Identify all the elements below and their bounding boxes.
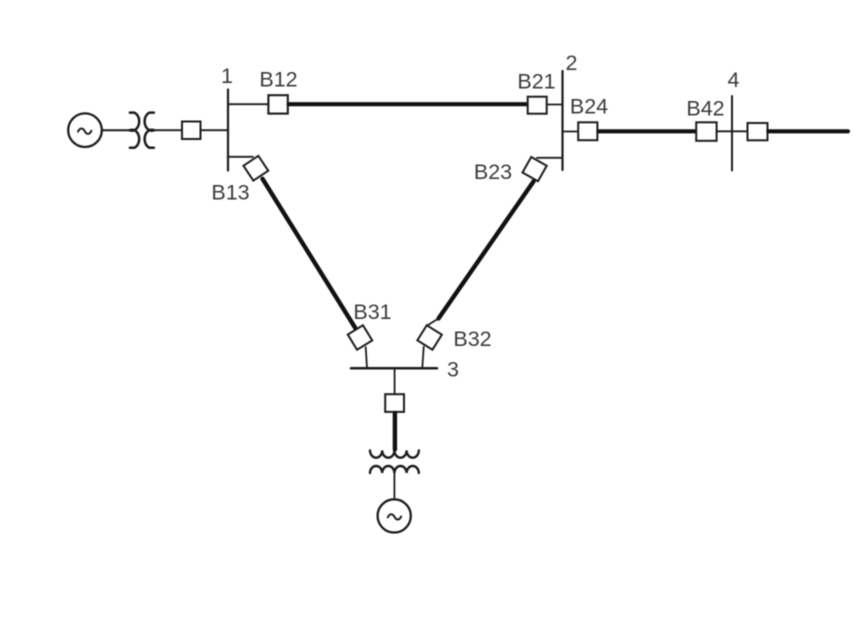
line 4 outgoing wire (thick) bbox=[768, 129, 848, 133]
generator G2 bbox=[378, 499, 411, 532]
wire breaker to T2 (thick) bbox=[393, 413, 397, 450]
svg-text:1: 1 bbox=[221, 64, 233, 88]
line 2-4 wire (thick) bbox=[599, 129, 696, 133]
breaker (bus 3 / transformer 2) bbox=[385, 394, 404, 412]
transformer T2 bbox=[370, 450, 419, 473]
wire bus 2 to B23 bbox=[537, 157, 563, 159]
svg-text:B12: B12 bbox=[259, 68, 297, 92]
svg-text:B42: B42 bbox=[686, 97, 724, 121]
line 2-3 wire (thick) bbox=[439, 182, 534, 319]
bus 4 bbox=[731, 96, 733, 171]
breaker B12 bbox=[268, 95, 287, 113]
breaker B42 bbox=[696, 122, 716, 141]
svg-text:4: 4 bbox=[728, 68, 740, 92]
wire bus 3 to breaker bbox=[394, 368, 396, 394]
breaker B32 bbox=[417, 325, 442, 350]
svg-text:B32: B32 bbox=[453, 327, 491, 351]
wire breaker to bus 1 bbox=[201, 129, 229, 131]
breaker B13 bbox=[243, 156, 268, 181]
breaker (generator 1 / bus 1) bbox=[182, 122, 201, 140]
wire bus 4 to right breaker bbox=[732, 130, 748, 132]
svg-text:B31: B31 bbox=[353, 300, 391, 324]
transformer T1 bbox=[130, 113, 154, 148]
svg-text:B24: B24 bbox=[570, 95, 608, 119]
line 1-3 wire (thick) bbox=[263, 179, 356, 328]
wire B21 to bus 2 bbox=[547, 104, 563, 106]
wire bus 2 to B24 bbox=[563, 131, 579, 133]
generator G1 bbox=[68, 113, 102, 147]
svg-text:B13: B13 bbox=[211, 180, 249, 204]
breaker B23 bbox=[522, 157, 546, 181]
breaker B24 bbox=[578, 122, 597, 140]
wire T1 to breaker bbox=[154, 129, 182, 131]
bus 1 bbox=[227, 90, 229, 171]
svg-text:B21: B21 bbox=[517, 69, 555, 93]
line 1-2 wire (thick) bbox=[289, 102, 527, 106]
breaker B31 bbox=[348, 325, 372, 349]
svg-text:B23: B23 bbox=[474, 160, 512, 184]
svg-text:3: 3 bbox=[447, 358, 459, 382]
wire B32 to bus 3 bbox=[422, 347, 423, 368]
bus 3 bbox=[351, 367, 437, 370]
wire T2 to G2 bbox=[393, 473, 395, 499]
wire B31 to bus 3 bbox=[366, 347, 367, 368]
breaker (bus 4 right, unlabeled) bbox=[748, 123, 768, 140]
wire G1 to transformer T1 bbox=[103, 129, 130, 131]
wire bus 1 to B12 bbox=[228, 103, 268, 105]
wire bus 1 to B13 bbox=[228, 156, 253, 158]
bus 2 bbox=[561, 71, 563, 170]
wire B42 to bus 4 bbox=[717, 130, 732, 132]
line 2-3 wire (thin tail at B32) bbox=[428, 319, 439, 326]
breaker B21 bbox=[528, 97, 547, 114]
svg-text:2: 2 bbox=[566, 51, 578, 75]
